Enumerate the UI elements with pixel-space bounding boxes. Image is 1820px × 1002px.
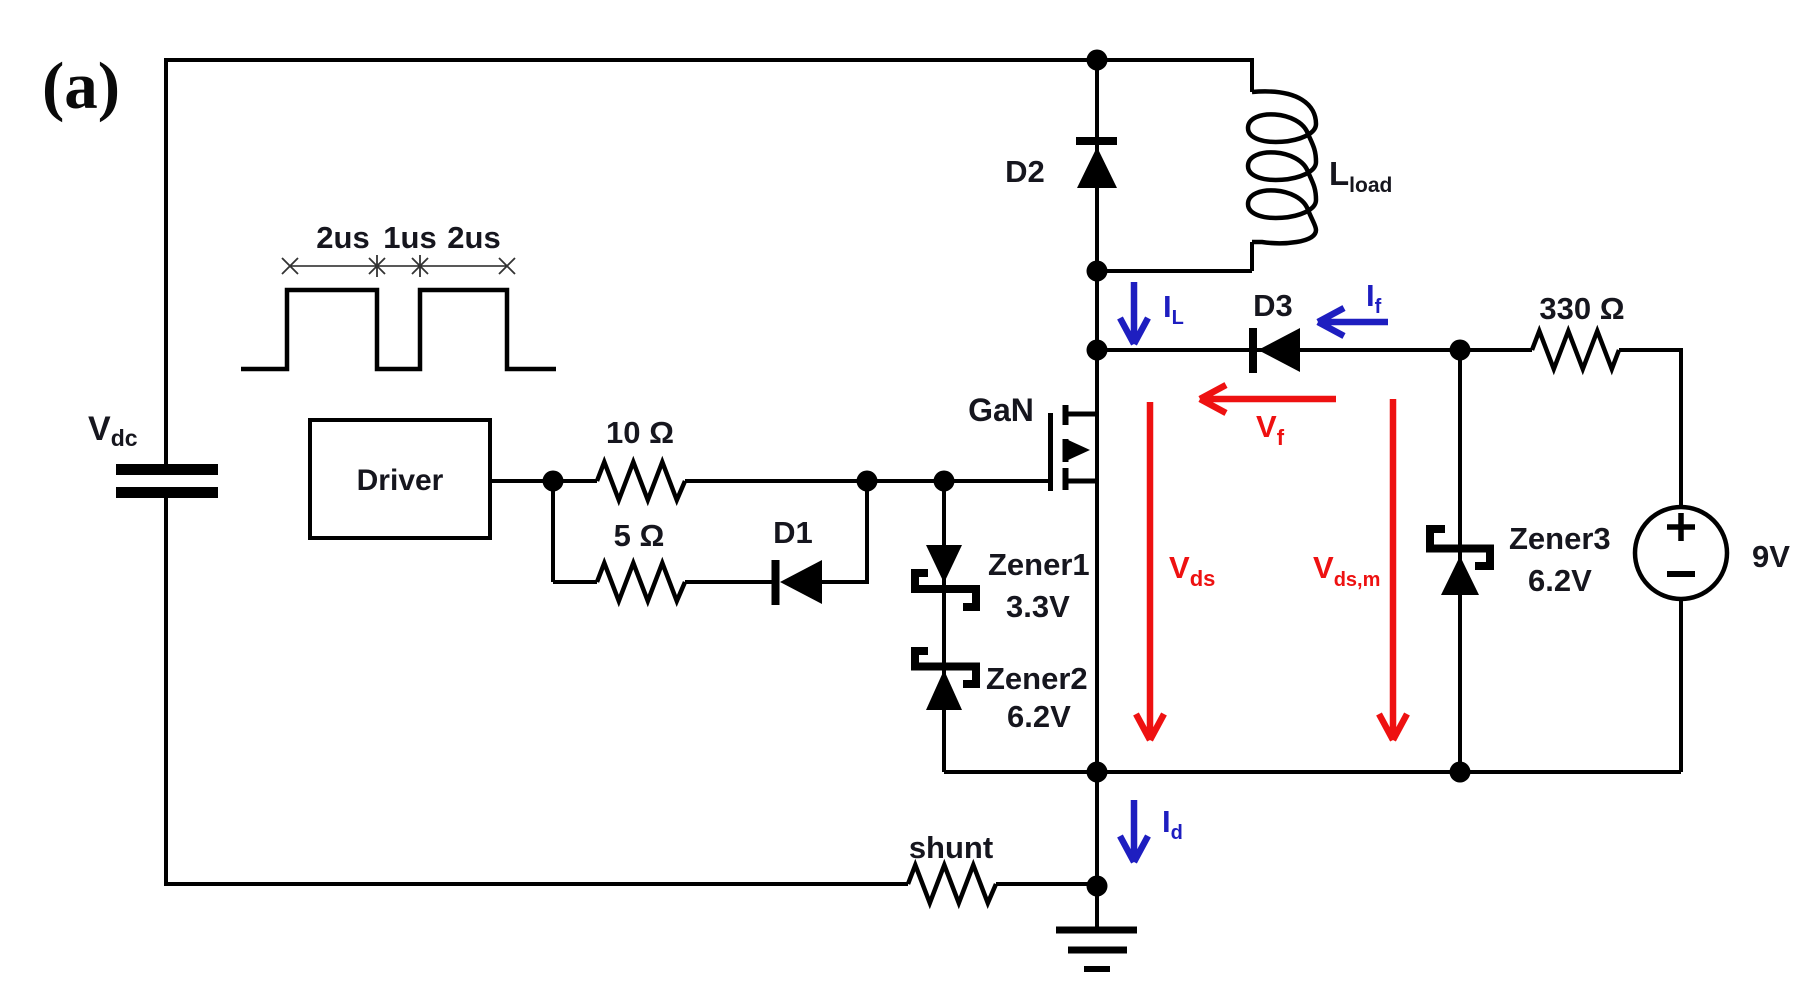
svg-text:330 Ω: 330 Ω: [1539, 291, 1624, 326]
resistor shunt: [908, 865, 996, 903]
diode D3 bar: [1249, 328, 1257, 373]
resistor R 5ohm: [597, 563, 685, 601]
svg-text:2us: 2us: [316, 220, 369, 255]
transistor Q1 channel dash top: [1063, 405, 1069, 425]
node gate row junction A: [857, 471, 878, 492]
wire driver output: [490, 479, 597, 483]
source V1 plus sign: [1667, 513, 1695, 541]
svg-text:Zener3: Zener3: [1509, 521, 1611, 556]
ground bar 3: [1084, 966, 1110, 972]
driver box U1: [310, 420, 490, 538]
wire zener1 zener2 column: [942, 481, 946, 772]
svg-text:9V: 9V: [1752, 539, 1790, 574]
wire shunt to drain column: [996, 882, 1097, 886]
node bottom rail left junction: [1087, 762, 1108, 783]
node shunt junction: [1087, 876, 1108, 897]
zener Z2 triangle: [926, 670, 962, 710]
wire 5ohm branch down: [551, 481, 555, 582]
wire bottom rail: [164, 882, 908, 886]
inductor Lload bottom lead: [1250, 242, 1254, 271]
node gate row junction B: [934, 471, 955, 492]
svg-text:D1: D1: [773, 515, 813, 550]
wire zener3 column: [1458, 350, 1462, 772]
dimension line: [290, 265, 507, 267]
wire left vertical: [164, 58, 168, 464]
dimension arrow mark 2: [369, 255, 385, 277]
wire inductor bottom to drain column: [1097, 269, 1252, 273]
zener Z3 symbol: [1430, 529, 1490, 566]
capacitor Vdc plate top: [116, 464, 218, 475]
transistor Q1 source tab: [1065, 479, 1097, 484]
arrow IL blue: [1120, 282, 1148, 344]
svg-text:10 Ω: 10 Ω: [606, 415, 674, 450]
svg-text:6.2V: 6.2V: [1528, 563, 1592, 598]
arrow Vf red: [1200, 385, 1336, 413]
svg-text:Zener1: Zener1: [988, 547, 1090, 582]
arrow If blue: [1318, 308, 1388, 336]
wire 5ohm branch lead: [553, 580, 597, 584]
node D3 row right junction: [1450, 340, 1471, 361]
svg-text:6.2V: 6.2V: [1007, 699, 1071, 734]
transistor Q1 channel dash bottom: [1063, 468, 1069, 490]
dimension arrow mark 4: [499, 258, 515, 274]
svg-text:shunt: shunt: [909, 830, 993, 865]
wire left lower vertical: [164, 498, 168, 884]
pulse waveform: [241, 290, 556, 369]
zener Z1 triangle: [926, 545, 962, 583]
node inductor bottom junction: [1087, 261, 1108, 282]
dimension arrow mark 3: [412, 255, 428, 277]
svg-text:Zener2: Zener2: [986, 661, 1088, 696]
svg-text:2us: 2us: [447, 220, 500, 255]
zener Z3 triangle: [1441, 556, 1479, 595]
node driver output junction: [543, 471, 564, 492]
source V1 minus sign: [1667, 571, 1695, 577]
svg-text:3.3V: 3.3V: [1006, 589, 1070, 624]
wire 5ohm to D1: [685, 580, 772, 584]
arrow Id blue: [1120, 800, 1148, 862]
capacitor Vdc plate bottom: [116, 487, 218, 498]
arrow Vds red: [1136, 402, 1164, 740]
diode D1 triangle: [780, 560, 822, 604]
wire 330 to right corner: [1619, 348, 1681, 507]
diode D3 triangle: [1258, 328, 1300, 372]
inductor Lload coil: [1248, 91, 1316, 243]
svg-text:1us: 1us: [383, 220, 436, 255]
inductor Lload top lead: [1250, 58, 1254, 92]
resistor R 330ohm: [1532, 331, 1619, 369]
wire corner up to gate row: [865, 481, 869, 584]
svg-text:5 Ω: 5 Ω: [614, 518, 665, 553]
wire D3 row: [1097, 348, 1532, 352]
transistor Q1 GaN gate bar: [1048, 413, 1053, 491]
wire D1 to corner: [822, 580, 867, 584]
diode D2 bar: [1076, 137, 1117, 145]
ground bar 2: [1068, 947, 1127, 954]
resistor R 10ohm: [597, 462, 685, 500]
svg-text:GaN: GaN: [968, 392, 1034, 428]
wire 9V bottom lead: [1679, 599, 1683, 772]
wire gate row: [685, 479, 1048, 483]
wire drain source column: [1095, 60, 1099, 931]
node D3 row left junction: [1087, 340, 1108, 361]
zener Z2 symbol: [915, 651, 976, 684]
arrow Vdsm red: [1379, 399, 1407, 740]
svg-text:(a): (a): [42, 49, 120, 123]
transistor Q1 drain tab: [1065, 412, 1097, 417]
wire top rail: [166, 58, 1252, 62]
diode D1 bar: [772, 560, 780, 605]
svg-text:D2: D2: [1005, 154, 1045, 189]
svg-text:Driver: Driver: [357, 464, 444, 497]
diode D2 triangle: [1077, 147, 1117, 188]
node bottom rail right junction: [1450, 762, 1471, 783]
source V1 9V circle: [1635, 507, 1727, 599]
wire bottom measurement rail: [944, 770, 1681, 774]
transistor Q1 body arrow: [1066, 439, 1090, 461]
node top rail junction: [1087, 50, 1108, 71]
zener Z1 symbol: [915, 573, 976, 607]
dimension arrow mark 1: [282, 258, 298, 274]
svg-text:D3: D3: [1253, 288, 1293, 323]
ground bar 1: [1056, 927, 1137, 934]
transistor Q1 channel dash middle: [1063, 439, 1069, 462]
